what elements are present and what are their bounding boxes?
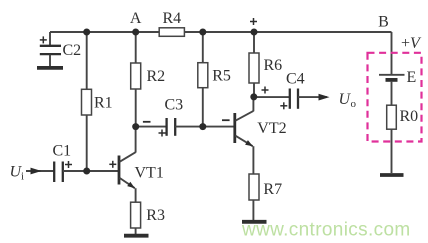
wire R2 to VT1 collector node bbox=[135, 89, 137, 127]
transistor VT1 bbox=[119, 127, 136, 202]
svg-text:C2: C2 bbox=[63, 42, 82, 59]
polarity - at VT2 base bbox=[222, 119, 230, 121]
capacitor C4 bbox=[290, 89, 298, 109]
polarity + at VT2 collector bbox=[262, 87, 269, 94]
wire R6 to VT2 collector node bbox=[253, 83, 255, 97]
resistor R2 bbox=[131, 63, 141, 89]
wire R1 branch upper bbox=[86, 32, 88, 89]
polarity + near C1 bbox=[65, 161, 72, 168]
wire input to C1 bbox=[26, 170, 54, 172]
ground below R3 bbox=[124, 234, 149, 238]
input arrowhead bbox=[31, 168, 42, 175]
junction: VT2 collector / R6 / C4 bbox=[250, 93, 257, 100]
capacitor C3 bbox=[167, 118, 176, 136]
ground below R0 bbox=[380, 173, 404, 177]
wire R0 to ground bbox=[391, 129, 393, 173]
capacitor C2 bbox=[40, 32, 61, 66]
battery E bbox=[379, 75, 405, 80]
polarity + near C2 bbox=[40, 36, 47, 43]
junction: R5 / C3 / VT2 base bbox=[199, 123, 206, 130]
polarity + on top rail above R6 bbox=[250, 18, 257, 25]
junction: top rail / R6 bbox=[251, 29, 258, 36]
capacitor C1 bbox=[54, 162, 63, 183]
wire C1 to VT1 base bbox=[63, 170, 119, 172]
VT2 emitter arrowhead bbox=[245, 140, 253, 146]
junction: VT1 collector / R2 / C3 bbox=[132, 123, 139, 130]
output arrowhead bbox=[319, 94, 330, 101]
wire R3 to ground bbox=[135, 228, 137, 234]
junction: C1 / R1 / VT1 base bbox=[83, 168, 90, 175]
svg-text:R4: R4 bbox=[162, 10, 181, 27]
svg-text:VT1: VT1 bbox=[135, 165, 164, 182]
ground below R7 bbox=[242, 220, 267, 224]
wire VT1 collector node to C3 bbox=[136, 126, 167, 128]
svg-text:o: o bbox=[351, 98, 357, 110]
resistor R1 bbox=[82, 89, 92, 115]
resistor R3 bbox=[131, 202, 141, 228]
wire B branch vertical down to battery bbox=[391, 32, 393, 74]
svg-text:B: B bbox=[378, 14, 389, 31]
wire battery to R0 bbox=[391, 81, 393, 105]
svg-text:R1: R1 bbox=[94, 95, 113, 112]
VT1 emitter arrowhead bbox=[127, 182, 135, 189]
svg-text:i: i bbox=[21, 171, 24, 183]
svg-text:R0: R0 bbox=[400, 108, 419, 125]
wire top supply rail bbox=[50, 31, 392, 33]
junction: top rail / R5 bbox=[199, 29, 206, 36]
svg-text:A: A bbox=[130, 10, 142, 27]
dashed load box (magenta) bbox=[368, 53, 422, 142]
wire VT1 emitter to R3 bbox=[135, 201, 137, 203]
resistor R4 bbox=[159, 28, 184, 37]
svg-text:R3: R3 bbox=[146, 207, 165, 224]
wire node A to R2 bbox=[135, 32, 137, 63]
svg-text:R5: R5 bbox=[212, 68, 231, 85]
svg-text:C4: C4 bbox=[286, 70, 305, 87]
ground below C2 bbox=[37, 66, 63, 70]
wire C4 to output bbox=[298, 96, 327, 98]
svg-text:E: E bbox=[407, 69, 417, 86]
resistor R7 bbox=[249, 174, 259, 200]
polarity + near C4 bbox=[280, 102, 287, 109]
polarity + near C3 bbox=[159, 130, 166, 137]
wire R1 branch lower bbox=[86, 115, 88, 171]
svg-text:C3: C3 bbox=[165, 96, 184, 113]
resistor R0 bbox=[387, 105, 397, 129]
wire R5 branch upper bbox=[202, 32, 204, 63]
resistor R5 bbox=[198, 63, 208, 88]
svg-text:R2: R2 bbox=[147, 68, 166, 85]
wire R5 to VT2 base node bbox=[202, 88, 204, 127]
wire R7 to ground bbox=[252, 200, 254, 220]
wire C3 to VT2 base bbox=[175, 126, 234, 128]
junction: top rail / R1 bbox=[83, 29, 90, 36]
resistor R6 bbox=[249, 53, 259, 83]
transistor VT2 bbox=[235, 97, 254, 174]
node A junction bbox=[132, 29, 139, 36]
svg-text:R7: R7 bbox=[263, 181, 282, 198]
svg-text:R6: R6 bbox=[264, 57, 283, 74]
svg-text:+V: +V bbox=[401, 35, 422, 52]
svg-text:www.cntronics.com: www.cntronics.com bbox=[241, 220, 411, 241]
polarity - near C3 bbox=[143, 121, 151, 123]
wire VT2 collector node to C4 bbox=[254, 96, 290, 98]
svg-text:VT2: VT2 bbox=[257, 120, 286, 137]
polarity + at VT1 base bbox=[109, 161, 116, 168]
svg-text:C1: C1 bbox=[53, 143, 72, 160]
wire R6 branch upper bbox=[253, 32, 255, 53]
